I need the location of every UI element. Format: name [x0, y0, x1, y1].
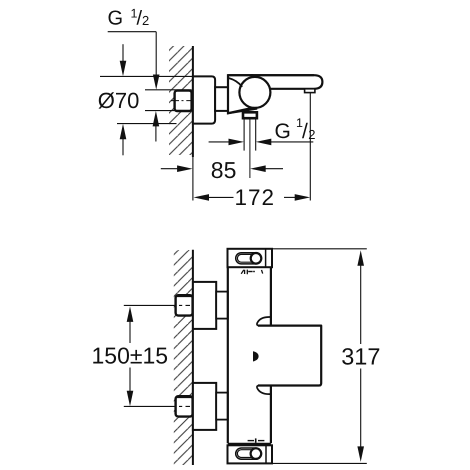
svg-text:150±15: 150±15 — [92, 342, 169, 368]
svg-text:85: 85 — [211, 157, 237, 183]
svg-text:/: / — [302, 120, 308, 143]
svg-text:G: G — [108, 7, 124, 29]
svg-text:Ø70: Ø70 — [98, 88, 140, 113]
svg-text:G: G — [275, 120, 291, 143]
svg-text:317: 317 — [341, 344, 380, 370]
svg-text:2: 2 — [308, 127, 315, 142]
svg-text:2: 2 — [142, 13, 149, 28]
svg-text:172: 172 — [235, 185, 276, 210]
